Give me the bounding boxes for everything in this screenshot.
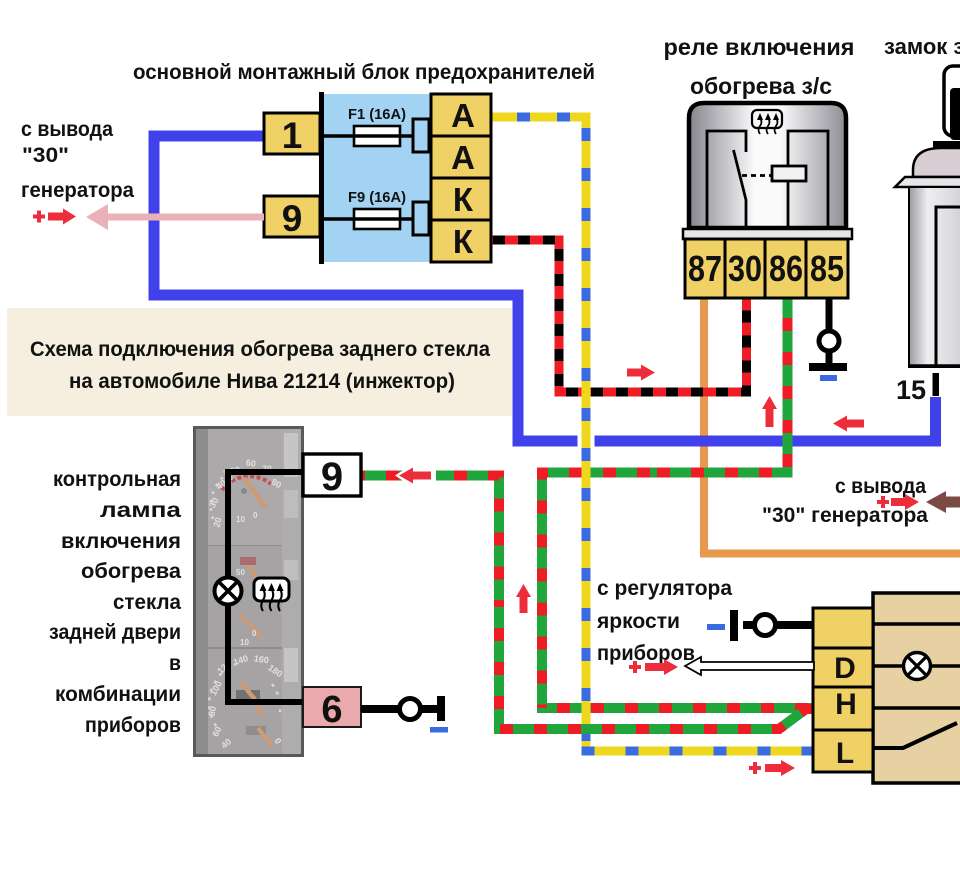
svg-text:задней двери: задней двери: [49, 621, 181, 644]
fuse block pin A1: [431, 94, 491, 136]
svg-text:с вывода: с вывода: [21, 118, 113, 141]
info box: [7, 308, 512, 416]
svg-text:реле включения: реле включения: [664, 34, 855, 60]
switch contact lines: [873, 622, 960, 626]
cluster internal wire: [228, 472, 303, 702]
svg-text:генератора: генератора: [21, 179, 134, 202]
svg-text:лампа: лампа: [100, 499, 181, 522]
svg-text:"30": "30": [22, 144, 69, 167]
svg-text:замок зажигания: замок зажигания: [884, 34, 960, 59]
svg-text:H: H: [835, 688, 857, 721]
fuse block pin A2: [431, 136, 491, 178]
svg-text:К: К: [453, 181, 474, 218]
fuse block pin K2: [431, 220, 491, 262]
relay flange: [683, 229, 852, 239]
red arrow left on blue wire: [833, 416, 864, 432]
fuse F9: [354, 209, 400, 229]
key blade: [950, 88, 960, 140]
svg-text:6: 6: [321, 689, 342, 731]
svg-text:0: 0: [253, 511, 258, 520]
svg-text:15: 15: [896, 375, 926, 405]
speedo arc details (top gauge): [222, 476, 271, 490]
plus mark: [749, 762, 761, 774]
fuse block pin 9: [264, 196, 320, 237]
fuse block pin K1: [431, 178, 491, 220]
svg-text:85: 85: [810, 248, 844, 289]
svg-text:50: 50: [236, 568, 245, 577]
switch lever: [873, 723, 957, 748]
connector bracket F1: [413, 119, 429, 152]
relay pin 30: [725, 239, 765, 298]
ground at switch top pin: [755, 621, 813, 629]
lock dome: [913, 148, 960, 177]
wire green/red B: switch pin H to cluster pin 9: [361, 476, 814, 730]
relay pin 85: [806, 239, 848, 298]
svg-text:с вывода: с вывода: [835, 475, 926, 498]
svg-text:с регулятора: с регулятора: [597, 577, 732, 600]
ground at relay pin 85: [826, 298, 833, 332]
red arrow right: [645, 659, 678, 675]
svg-text:основной монтажный блок предох: основной монтажный блок предохранителей: [133, 60, 595, 84]
svg-text:приборов: приборов: [85, 714, 181, 737]
red arrow left on green wire B (white halo): [395, 464, 436, 487]
svg-text:D: D: [834, 652, 856, 685]
svg-text:86: 86: [769, 248, 803, 289]
middle gauge details: [240, 557, 256, 565]
cluster frame: [193, 426, 304, 757]
wire green/red A: relay pin 86 to switch pin H: [542, 298, 814, 708]
key bow: [944, 66, 960, 136]
heated glass icon in cluster: [254, 578, 289, 601]
svg-text:обогрева: обогрева: [81, 560, 181, 583]
cluster pin 6: [303, 687, 361, 727]
cluster pin 9: [303, 454, 361, 496]
svg-text:"30" генератора: "30" генератора: [762, 504, 928, 527]
relay coil: [772, 166, 806, 181]
svg-text:F1 (16A): F1 (16A): [348, 106, 406, 123]
white gap where yellow crosses blue: [578, 435, 595, 447]
wire orange: relay pin 87 to right edge: [704, 298, 960, 554]
plus mark right: [877, 496, 889, 508]
fuse block body: [322, 94, 431, 262]
red arrow right on red/black wire: [627, 365, 655, 381]
switch pin (top, ground): [813, 608, 873, 648]
svg-text:9: 9: [282, 198, 303, 239]
white arrow from pin D: [685, 657, 814, 675]
red arrow right: [891, 494, 919, 510]
svg-text:включения: включения: [61, 530, 181, 553]
wire yellow/blue: fuse output A to switch pin L: [491, 117, 814, 751]
brown arrow to generator: [926, 491, 960, 513]
svg-text:60: 60: [245, 457, 257, 469]
control lamp symbol: [215, 578, 242, 605]
svg-text:F9 (16A): F9 (16A): [348, 189, 406, 206]
switch pin H: [813, 687, 873, 730]
svg-text:приборов: приборов: [597, 642, 695, 665]
red arrow up between green wires: [516, 584, 531, 613]
red arrow right: [48, 209, 76, 225]
plus mark: [33, 211, 45, 223]
bottom gauge (speedometer) details: [207, 653, 285, 750]
relay pin 86: [765, 239, 806, 298]
ground at cluster pin 6: [361, 705, 400, 713]
svg-text:яркости: яркости: [596, 610, 680, 633]
label: control lamp in instrument cluster: [49, 468, 181, 737]
svg-text:К: К: [453, 223, 474, 260]
plus mark: [629, 661, 641, 673]
svg-text:160: 160: [253, 653, 269, 665]
switch pin L: [813, 730, 873, 772]
lock body: [909, 187, 960, 367]
svg-text:контрольная: контрольная: [53, 468, 181, 491]
relay body U1: [689, 103, 846, 228]
switch pin D: [813, 648, 873, 687]
fuse block pin 1: [264, 113, 320, 154]
pink arrow to generator: [86, 204, 264, 230]
svg-text:А: А: [451, 139, 475, 176]
wire to fuse F1: [320, 134, 413, 138]
svg-text:10: 10: [236, 515, 245, 524]
svg-text:стекла: стекла: [113, 591, 181, 614]
svg-text:9: 9: [321, 455, 343, 499]
svg-text:1: 1: [282, 115, 303, 156]
wire red/black: fuse output K to relay pin 30: [491, 240, 747, 392]
svg-text:30: 30: [728, 248, 762, 289]
fuse F1: [354, 126, 400, 146]
connector bracket F9: [413, 202, 429, 235]
wire blue: fuse pin 1 to ignition terminal 15: [154, 136, 936, 441]
terminal 15: [933, 373, 940, 396]
svg-text:в: в: [169, 652, 181, 675]
svg-text:обогрева з/с: обогрева з/с: [690, 73, 832, 99]
switch body: [873, 593, 960, 783]
svg-text:0: 0: [252, 629, 257, 638]
svg-text:L: L: [836, 737, 854, 770]
lock flange: [895, 177, 960, 187]
svg-text:А: А: [451, 97, 475, 134]
red arrow up on green wire A: [762, 396, 777, 427]
relay internal contacts: [707, 131, 828, 228]
svg-text:на автомобиле Нива 21214 (инже: на автомобиле Нива 21214 (инжектор): [69, 369, 455, 393]
relay heated-glass icon: [752, 110, 782, 128]
svg-text:Схема подключения обогрева зад: Схема подключения обогрева заднего стекл…: [30, 337, 491, 361]
key slot bar: [933, 141, 960, 148]
red arrow right: [765, 760, 795, 776]
wire to fuse F9: [320, 217, 413, 221]
svg-text:10: 10: [240, 638, 249, 647]
svg-text:комбинации: комбинации: [55, 683, 181, 706]
svg-text:87: 87: [688, 248, 722, 289]
relay pin 87: [685, 239, 725, 298]
